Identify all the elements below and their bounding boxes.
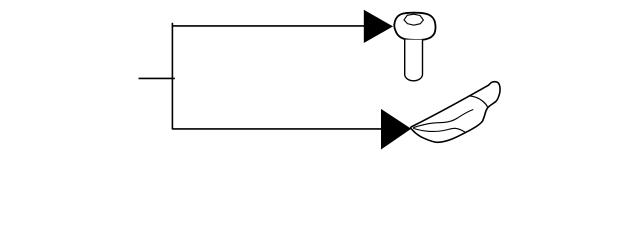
handle part end-cap line	[469, 96, 488, 108]
bolt hex socket	[404, 14, 423, 25]
arrowhead to handle part	[381, 109, 411, 150]
wire: vertical branch	[171, 23, 173, 130]
handle part scoop rim lower line	[413, 128, 465, 132]
bolt head outline	[394, 13, 435, 40]
handle part outer outline	[411, 82, 500, 143]
bolt shank	[405, 40, 423, 81]
wire: top leader line	[172, 25, 364, 27]
wire: bottom leader line	[172, 128, 381, 130]
wire: left stub	[139, 77, 175, 79]
arrowhead to bolt	[364, 10, 393, 43]
handle part scoop rim upper line	[413, 110, 473, 128]
